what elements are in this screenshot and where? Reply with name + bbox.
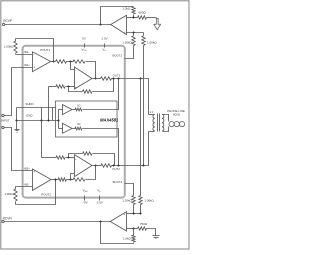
wire U5 minus row bbox=[127, 228, 138, 230]
transformer T1 primary bbox=[149, 114, 155, 131]
node OUT2 c bbox=[142, 164, 144, 166]
node U3 plus bbox=[67, 85, 69, 87]
svg-text:1.20kΩ: 1.20kΩ bbox=[122, 198, 132, 202]
svg-text:-: - bbox=[75, 68, 76, 72]
node RCVN-fb junction bbox=[99, 220, 101, 222]
svg-text:+: + bbox=[33, 66, 35, 70]
svg-text:RCVN: RCVN bbox=[3, 217, 13, 221]
svg-text:2.5V: 2.5V bbox=[102, 37, 108, 41]
svg-text:BOUT2: BOUT2 bbox=[113, 180, 123, 184]
wire U3 plus row bbox=[49, 86, 75, 88]
wire RCVN row bbox=[5, 221, 111, 223]
wire SHDN-GND tie 2 bbox=[41, 108, 43, 121]
ground symbol bbox=[15, 121, 20, 133]
phone line cord bbox=[169, 122, 185, 127]
wire U2 feedback loop bbox=[101, 7, 134, 25]
terminal RCVN bbox=[2, 217, 12, 223]
svg-text:POUT1: POUT1 bbox=[40, 48, 50, 52]
svg-text:GND: GND bbox=[26, 114, 32, 118]
label OUT2 bbox=[112, 167, 120, 171]
wire U2 minus row bbox=[127, 17, 157, 19]
resistor R2 bbox=[56, 60, 67, 63]
node OUT2 a bbox=[112, 164, 114, 166]
pin label IN2- bbox=[16, 182, 33, 186]
wire U3 termination row bbox=[69, 79, 114, 92]
resistor R3 feedback bbox=[73, 60, 85, 63]
resistor R11 bbox=[56, 156, 65, 159]
svg-text:+: + bbox=[123, 212, 125, 216]
label INPUT bbox=[1, 119, 9, 123]
transformer T1 secondary bbox=[162, 114, 169, 131]
svg-text:1.20kΩ: 1.20kΩ bbox=[122, 40, 132, 44]
node GND tie bbox=[15, 119, 17, 121]
svg-text:5Ω: 5Ω bbox=[77, 123, 80, 126]
wire U4 plus row bbox=[42, 157, 75, 159]
resistor RB2 bbox=[73, 123, 83, 130]
wire SHDN-GND tie bbox=[16, 108, 18, 121]
resistor R7 1.20k bbox=[122, 33, 135, 48]
node A2 bbox=[69, 178, 71, 180]
resistor RB1 bbox=[73, 105, 83, 111]
node U3 out bbox=[94, 77, 96, 79]
svg-text:POUT2: POUT2 bbox=[41, 192, 51, 196]
svg-text:MAX4581: MAX4581 bbox=[100, 118, 119, 123]
pin VL+ bbox=[102, 37, 108, 53]
ground symbol 2 bbox=[147, 229, 160, 239]
svg-text:1.00kΩ: 1.00kΩ bbox=[147, 40, 157, 44]
op-amp POUT2 bbox=[33, 169, 52, 196]
label GND bbox=[26, 114, 32, 118]
resistor R17 1.20k bbox=[122, 196, 135, 214]
wire SHDN-GND tie 3 bbox=[52, 108, 54, 121]
svg-text:-5V: -5V bbox=[83, 200, 88, 204]
IC U1 outline bbox=[23, 46, 125, 198]
wire ground riser bottom bbox=[41, 121, 43, 158]
pin label IN1+ bbox=[24, 63, 30, 67]
terminal INPUT- bbox=[2, 126, 4, 128]
wire U5 feedback loop bbox=[101, 222, 134, 244]
resistor R16 1.00k bbox=[4, 187, 17, 205]
svg-text:1.00kΩ: 1.00kΩ bbox=[4, 192, 14, 196]
svg-text:OUT1: OUT1 bbox=[113, 74, 121, 78]
wire U2 plus row bbox=[127, 32, 144, 34]
pin VSS bbox=[83, 188, 88, 204]
svg-text:OUT2: OUT2 bbox=[112, 167, 120, 171]
wire A2 to minus input bbox=[71, 174, 75, 180]
op-amp U4 bbox=[75, 155, 93, 178]
wire RCVP row bbox=[5, 24, 111, 26]
arrow to line out bbox=[154, 18, 161, 29]
node OUT1 b bbox=[117, 77, 119, 79]
svg-text:IN1+: IN1+ bbox=[24, 63, 30, 67]
pin label IN1- bbox=[16, 50, 33, 54]
resistor R19 750 bbox=[138, 222, 148, 230]
svg-text:-2.5V: -2.5V bbox=[96, 200, 103, 204]
label BOUT1 bbox=[112, 54, 122, 58]
op-amp U2 bbox=[111, 15, 127, 35]
node POUT2 out bbox=[54, 178, 56, 180]
resistor R12 bbox=[83, 152, 93, 155]
svg-text:IN1-: IN1- bbox=[24, 50, 29, 54]
svg-text:IN2-: IN2- bbox=[24, 182, 29, 186]
node U4 plus bbox=[67, 156, 69, 158]
svg-text:1.0kΩ: 1.0kΩ bbox=[123, 236, 132, 240]
wire SHDN row bbox=[17, 107, 56, 109]
svg-text:RCVP: RCVP bbox=[3, 19, 12, 23]
svg-text:SHDN: SHDN bbox=[25, 102, 33, 106]
wire POUT2 feedback bottom bbox=[16, 180, 56, 205]
label MAX4581 bbox=[100, 118, 119, 123]
svg-text:+: + bbox=[75, 157, 77, 161]
label BOUT2 bbox=[113, 180, 123, 184]
svg-text:-: - bbox=[124, 15, 125, 19]
svg-text:5Ω: 5Ω bbox=[77, 105, 80, 108]
label 1:1 bbox=[150, 110, 154, 114]
resistor R18 1.00k bbox=[139, 196, 155, 214]
wire A riser bbox=[140, 79, 142, 196]
svg-text:+: + bbox=[33, 170, 35, 174]
wire OUT1 row bbox=[93, 79, 149, 115]
svg-text:+: + bbox=[124, 31, 126, 35]
pin VDD bbox=[81, 37, 87, 53]
wire INPUT- riser bbox=[5, 128, 33, 171]
op-amp POUT1 bbox=[33, 48, 51, 72]
wire U3 minus row bbox=[51, 62, 96, 79]
wire A to minus input bbox=[71, 62, 75, 70]
svg-text:1.00kΩ: 1.00kΩ bbox=[144, 198, 154, 202]
node GND a bbox=[40, 119, 42, 121]
wire B2 in bbox=[59, 128, 63, 130]
svg-text:1.00kΩ: 1.00kΩ bbox=[4, 45, 14, 49]
terminal RCVP bbox=[2, 19, 12, 25]
svg-text:-: - bbox=[75, 173, 76, 177]
svg-text:600Ω: 600Ω bbox=[138, 10, 146, 14]
node OUT2 b bbox=[117, 164, 119, 166]
node U5 plus b bbox=[139, 212, 141, 214]
resistor R9 bbox=[83, 90, 93, 93]
node GND b bbox=[47, 119, 49, 121]
node A bbox=[69, 60, 71, 62]
wire INPUT+ riser bbox=[5, 68, 33, 116]
buffer B2 bbox=[63, 123, 73, 133]
terminal INPUT+ bbox=[2, 114, 4, 116]
op-amp U3 bbox=[75, 67, 93, 89]
svg-text:-: - bbox=[34, 53, 35, 57]
pin VL- bbox=[96, 188, 103, 204]
node U5 minus bbox=[132, 227, 134, 229]
svg-text:-: - bbox=[124, 227, 125, 231]
resistor R20 1.0k feedback bbox=[123, 229, 135, 244]
node U5 plus a bbox=[132, 212, 134, 214]
resistor R14 feedback bbox=[73, 178, 85, 181]
wire ground riser top bbox=[48, 87, 50, 121]
node U4 out bbox=[94, 164, 96, 166]
wire U4 termination row bbox=[69, 154, 115, 166]
border frame bbox=[1, 1, 189, 249]
MAX4581 box bbox=[56, 101, 118, 137]
svg-text:1.0kΩ: 1.0kΩ bbox=[122, 7, 131, 11]
svg-text:IN2+: IN2+ bbox=[24, 167, 30, 171]
svg-text:+: + bbox=[75, 85, 77, 89]
svg-text:1:1: 1:1 bbox=[150, 110, 154, 114]
wire BOUT2 bbox=[125, 184, 134, 196]
svg-text:600Ω: 600Ω bbox=[173, 112, 181, 116]
wire GND row bbox=[17, 120, 59, 122]
buffer B1 bbox=[63, 105, 73, 115]
resistor R5 1.0k feedback bbox=[122, 7, 135, 15]
node GND-box bbox=[57, 119, 59, 121]
node U2 minus bbox=[132, 16, 134, 18]
label PHONE LINE bbox=[167, 109, 185, 117]
resistor R4 bbox=[56, 85, 65, 88]
resistor R1 1.00k bbox=[4, 39, 17, 55]
wire B2 out bbox=[83, 129, 119, 166]
wire U4 minus row bbox=[52, 166, 96, 180]
resistor R6 600 bbox=[138, 10, 147, 19]
svg-text:750Ω: 750Ω bbox=[140, 222, 148, 226]
pin label IN2+ bbox=[24, 167, 30, 171]
svg-text:5V: 5V bbox=[82, 37, 86, 41]
node OUT1 a bbox=[112, 77, 114, 79]
wire POUT1 feedback top bbox=[16, 39, 54, 62]
node POUT1 out bbox=[52, 60, 54, 62]
wire buffers input link bbox=[58, 110, 60, 129]
svg-text:BOUT1: BOUT1 bbox=[112, 54, 122, 58]
transformer T1 core bbox=[158, 114, 160, 132]
node RCVP-fb junction bbox=[99, 23, 101, 25]
svg-text:INPUT: INPUT bbox=[1, 119, 9, 123]
op-amp U5 bbox=[110, 212, 126, 232]
wire U5 plus row bbox=[127, 213, 141, 215]
wire B1 out bbox=[83, 79, 119, 110]
resistor R10 bbox=[101, 77, 112, 80]
svg-text:-: - bbox=[34, 186, 35, 190]
resistor R8 1.00k bbox=[142, 33, 158, 166]
label OUT1 bbox=[113, 74, 121, 78]
wire BOUT1 to R7 bbox=[125, 48, 134, 59]
resistor R15 bbox=[101, 164, 112, 167]
wire OUT2 row bbox=[93, 132, 149, 166]
label SHDN bbox=[25, 102, 33, 106]
resistor R13 bbox=[58, 178, 66, 181]
node OUT1 c bbox=[139, 77, 141, 79]
wire B1 in bbox=[59, 109, 63, 111]
node U2 plus bbox=[132, 31, 134, 33]
